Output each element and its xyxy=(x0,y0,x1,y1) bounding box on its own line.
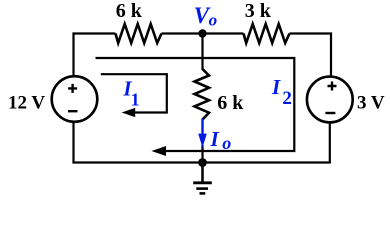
svg-text:1: 1 xyxy=(131,90,140,110)
voltage source V1 12V circle xyxy=(52,76,98,122)
wire top-right segment xyxy=(290,34,332,77)
svg-text:12 V: 12 V xyxy=(8,93,45,114)
wire left-bottom segment xyxy=(74,122,330,163)
wire middle branch lower xyxy=(201,145,203,181)
mesh loop I1 indicator xyxy=(101,74,167,112)
V2 minus sign xyxy=(325,112,335,114)
ground xyxy=(201,163,203,183)
svg-text:I: I xyxy=(271,75,281,99)
voltage source V2 3V circle xyxy=(307,77,353,123)
wire middle branch upper xyxy=(201,34,203,71)
svg-text:o: o xyxy=(209,10,218,29)
I2 arrowhead xyxy=(152,146,167,156)
svg-text:2: 2 xyxy=(282,88,292,109)
V1 plus sign xyxy=(68,84,77,93)
svg-text:I: I xyxy=(210,127,220,151)
current arrow Io (blue) xyxy=(201,119,203,136)
wire top-left segment xyxy=(74,34,116,77)
svg-text:3 k: 3 k xyxy=(245,0,272,22)
node Vo dot xyxy=(198,29,206,37)
resistor R3 6k (middle vertical zigzag) xyxy=(195,69,210,120)
V1 minus sign xyxy=(68,110,78,112)
resistor R2 3k (top right zigzag) xyxy=(244,24,290,43)
svg-text:3 V: 3 V xyxy=(357,93,385,114)
bottom node dot xyxy=(198,158,207,167)
wire top-middle segment xyxy=(162,32,244,34)
svg-text:o: o xyxy=(222,133,231,153)
I1 arrowhead xyxy=(122,108,136,117)
mesh loop I2 indicator xyxy=(96,58,295,151)
resistor R1 6k (top left zigzag) xyxy=(116,24,162,43)
V2 plus sign xyxy=(328,82,337,91)
svg-text:6 k: 6 k xyxy=(116,0,143,22)
svg-text:6 k: 6 k xyxy=(217,92,244,114)
